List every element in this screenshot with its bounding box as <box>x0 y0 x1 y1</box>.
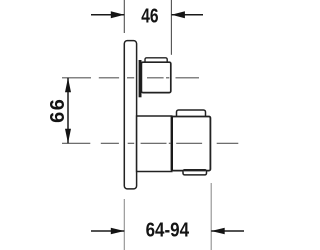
thermostat knob left edge (thick) <box>171 117 173 171</box>
svg-text:66: 66 <box>47 98 69 123</box>
dim 64-94 leader left <box>91 230 124 232</box>
dim 64-94 arrow left <box>111 228 125 235</box>
dim 46 arrow right <box>171 11 185 18</box>
top handle knob <box>141 62 170 92</box>
dim 46 arrow left <box>111 11 125 18</box>
dim 66 line <box>67 78 69 144</box>
top handle flange <box>139 60 142 97</box>
svg-text:64-94: 64-94 <box>146 218 190 241</box>
thermostat knob bottom grip band <box>183 170 207 175</box>
dim 64-94 leader right <box>211 230 244 232</box>
dim 64-94 extension line right <box>210 183 212 250</box>
dim 46 extension line left <box>123 0 125 33</box>
dim 46 leader right <box>171 14 203 16</box>
dim 64-94 arrow right <box>211 228 225 235</box>
dim 66 arrow up <box>65 78 71 93</box>
thermostat knob top grip band <box>177 110 206 118</box>
thermostat sleeve <box>137 116 172 172</box>
svg-text:46: 46 <box>141 5 158 27</box>
wall plate (escutcheon, side view) <box>124 41 136 189</box>
centerline thermostat handle <box>62 142 238 144</box>
dim 64-94 extension line left <box>123 199 125 250</box>
dim 46 extension line right <box>170 0 172 55</box>
centerline top handle <box>62 77 199 79</box>
dim 66 arrow down <box>65 129 71 144</box>
top handle grip band <box>145 58 167 63</box>
dim 46 leader left <box>91 14 124 16</box>
thermostat knob <box>172 117 211 171</box>
